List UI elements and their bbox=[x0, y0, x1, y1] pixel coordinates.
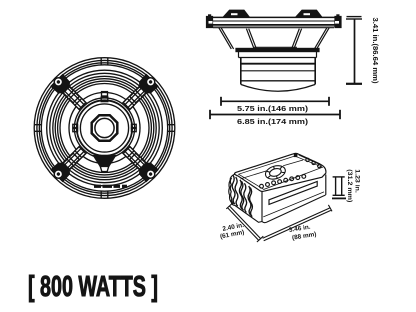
front speaker view bbox=[34, 58, 175, 199]
hub side tabs bbox=[73, 124, 78, 127]
spoke lower-left bbox=[50, 141, 91, 182]
diagonal dimension 2.40 in bbox=[226, 203, 263, 242]
flange bbox=[207, 16, 341, 18]
top seam left of logo bbox=[241, 171, 267, 179]
outer rim circles bbox=[34, 58, 175, 199]
svg-text:1.23 in.: 1.23 in. bbox=[354, 169, 361, 193]
bottom wedge bbox=[94, 156, 116, 167]
top face bbox=[234, 153, 325, 191]
dimension line 6.85 in bbox=[210, 110, 340, 119]
svg-text:6.85 in.(174 mm): 6.85 in.(174 mm) bbox=[237, 117, 309, 126]
hub top upper tab bbox=[102, 92, 108, 96]
basket bbox=[213, 25, 336, 27]
vertical dimension 3.41 in bbox=[346, 17, 362, 84]
dimension text 1.23 rotated bbox=[346, 169, 361, 202]
spoke upper-left bbox=[50, 73, 91, 114]
vertical dimension 1.23 in (box) bbox=[332, 177, 346, 199]
side view bbox=[207, 10, 342, 91]
cone inner edge ring bbox=[69, 93, 140, 164]
cone label text bbox=[94, 185, 127, 188]
dimension text 2.40 bbox=[220, 222, 245, 241]
fin silhouette bumps bbox=[230, 178, 233, 204]
diagonal dimension 3.46 in bbox=[263, 205, 332, 241]
dust cap inner circle bbox=[95, 118, 114, 137]
front-right face bbox=[262, 175, 326, 222]
hub circles bbox=[74, 98, 134, 158]
dark mark at back corner bbox=[294, 154, 298, 157]
cone rib rings bbox=[47, 70, 163, 186]
front face lower seam bbox=[263, 192, 324, 217]
left face with fins bbox=[229, 174, 262, 222]
svg-text:[ 800 WATTS ]: [ 800 WATTS ] bbox=[28, 271, 158, 303]
slot on front face bbox=[269, 182, 317, 205]
wedge lower extension bbox=[100, 167, 108, 172]
magnet bbox=[236, 48, 319, 51]
gasket clamps on top bbox=[223, 10, 250, 17]
top seam right of logo bbox=[283, 160, 303, 166]
svg-text:5.75 in.(146 mm): 5.75 in.(146 mm) bbox=[237, 104, 309, 113]
spokes (X brace) bbox=[50, 73, 160, 183]
fins bbox=[232, 175, 235, 204]
spoke lower-right bbox=[118, 141, 159, 182]
terminal dots row bbox=[260, 175, 306, 189]
dimension text 3.46 bbox=[289, 224, 317, 242]
svg-text:(31.2 mm): (31.2 mm) bbox=[346, 169, 353, 202]
logo on top bbox=[264, 163, 287, 181]
flange left end cap bbox=[207, 17, 213, 28]
crossover box bbox=[229, 153, 326, 222]
dust cap octagon bbox=[92, 115, 118, 141]
back-right top edge bbox=[299, 155, 320, 165]
front-right face bottom edge bbox=[262, 195, 326, 223]
svg-text:3.41 in.(86.64 mm): 3.41 in.(86.64 mm) bbox=[371, 18, 378, 84]
dimension line 5.75 in bbox=[221, 97, 329, 106]
gasket cardinal ticks bbox=[34, 58, 174, 198]
terminal dots right edge bbox=[306, 158, 321, 168]
top face inset border bbox=[239, 156, 323, 189]
flange right end cap bbox=[335, 17, 341, 28]
spoke upper-right bbox=[118, 73, 159, 114]
